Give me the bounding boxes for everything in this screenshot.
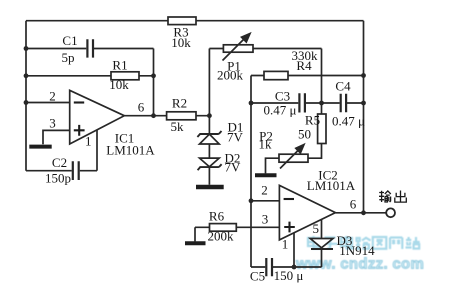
svg-text:1: 1	[85, 134, 92, 149]
svg-text:5p: 5p	[62, 50, 75, 65]
svg-text:50: 50	[298, 127, 311, 142]
svg-text:R2: R2	[172, 96, 187, 111]
svg-text:1N914: 1N914	[339, 243, 375, 258]
svg-text:www. cndzz. com: www. cndzz. com	[295, 256, 424, 273]
svg-text:200k: 200k	[217, 68, 244, 83]
svg-text:C2: C2	[52, 155, 67, 170]
svg-text:150 μ: 150 μ	[274, 268, 304, 283]
svg-text:1: 1	[282, 237, 289, 252]
svg-text:C4: C4	[335, 79, 351, 94]
svg-text:R4: R4	[296, 58, 312, 73]
svg-text:6: 6	[350, 197, 357, 212]
svg-text:2: 2	[49, 89, 56, 104]
svg-text:3: 3	[49, 116, 56, 131]
svg-text:R1: R1	[112, 58, 127, 73]
svg-text:1k: 1k	[259, 137, 273, 152]
svg-text:150p: 150p	[45, 171, 71, 186]
svg-text:C3: C3	[275, 89, 290, 104]
svg-text:200k: 200k	[208, 229, 235, 244]
svg-text:10k: 10k	[109, 77, 129, 92]
svg-text:LM101A: LM101A	[307, 178, 356, 193]
svg-text:R5: R5	[305, 113, 320, 128]
svg-text:5k: 5k	[171, 119, 185, 134]
svg-text:2: 2	[261, 183, 268, 198]
svg-text:3: 3	[262, 211, 269, 226]
svg-text:LM101A: LM101A	[106, 143, 155, 158]
svg-text:7V: 7V	[225, 160, 242, 175]
svg-text:R6: R6	[209, 209, 225, 224]
svg-text:6: 6	[138, 100, 145, 115]
svg-text:7V: 7V	[227, 130, 244, 145]
svg-text:0.47 μ: 0.47 μ	[332, 114, 365, 129]
svg-text:0.47 μ: 0.47 μ	[264, 103, 297, 118]
svg-text:C5: C5	[250, 269, 265, 284]
svg-text:5: 5	[312, 221, 319, 236]
svg-text:10k: 10k	[171, 35, 191, 50]
svg-text:C1: C1	[62, 33, 77, 48]
